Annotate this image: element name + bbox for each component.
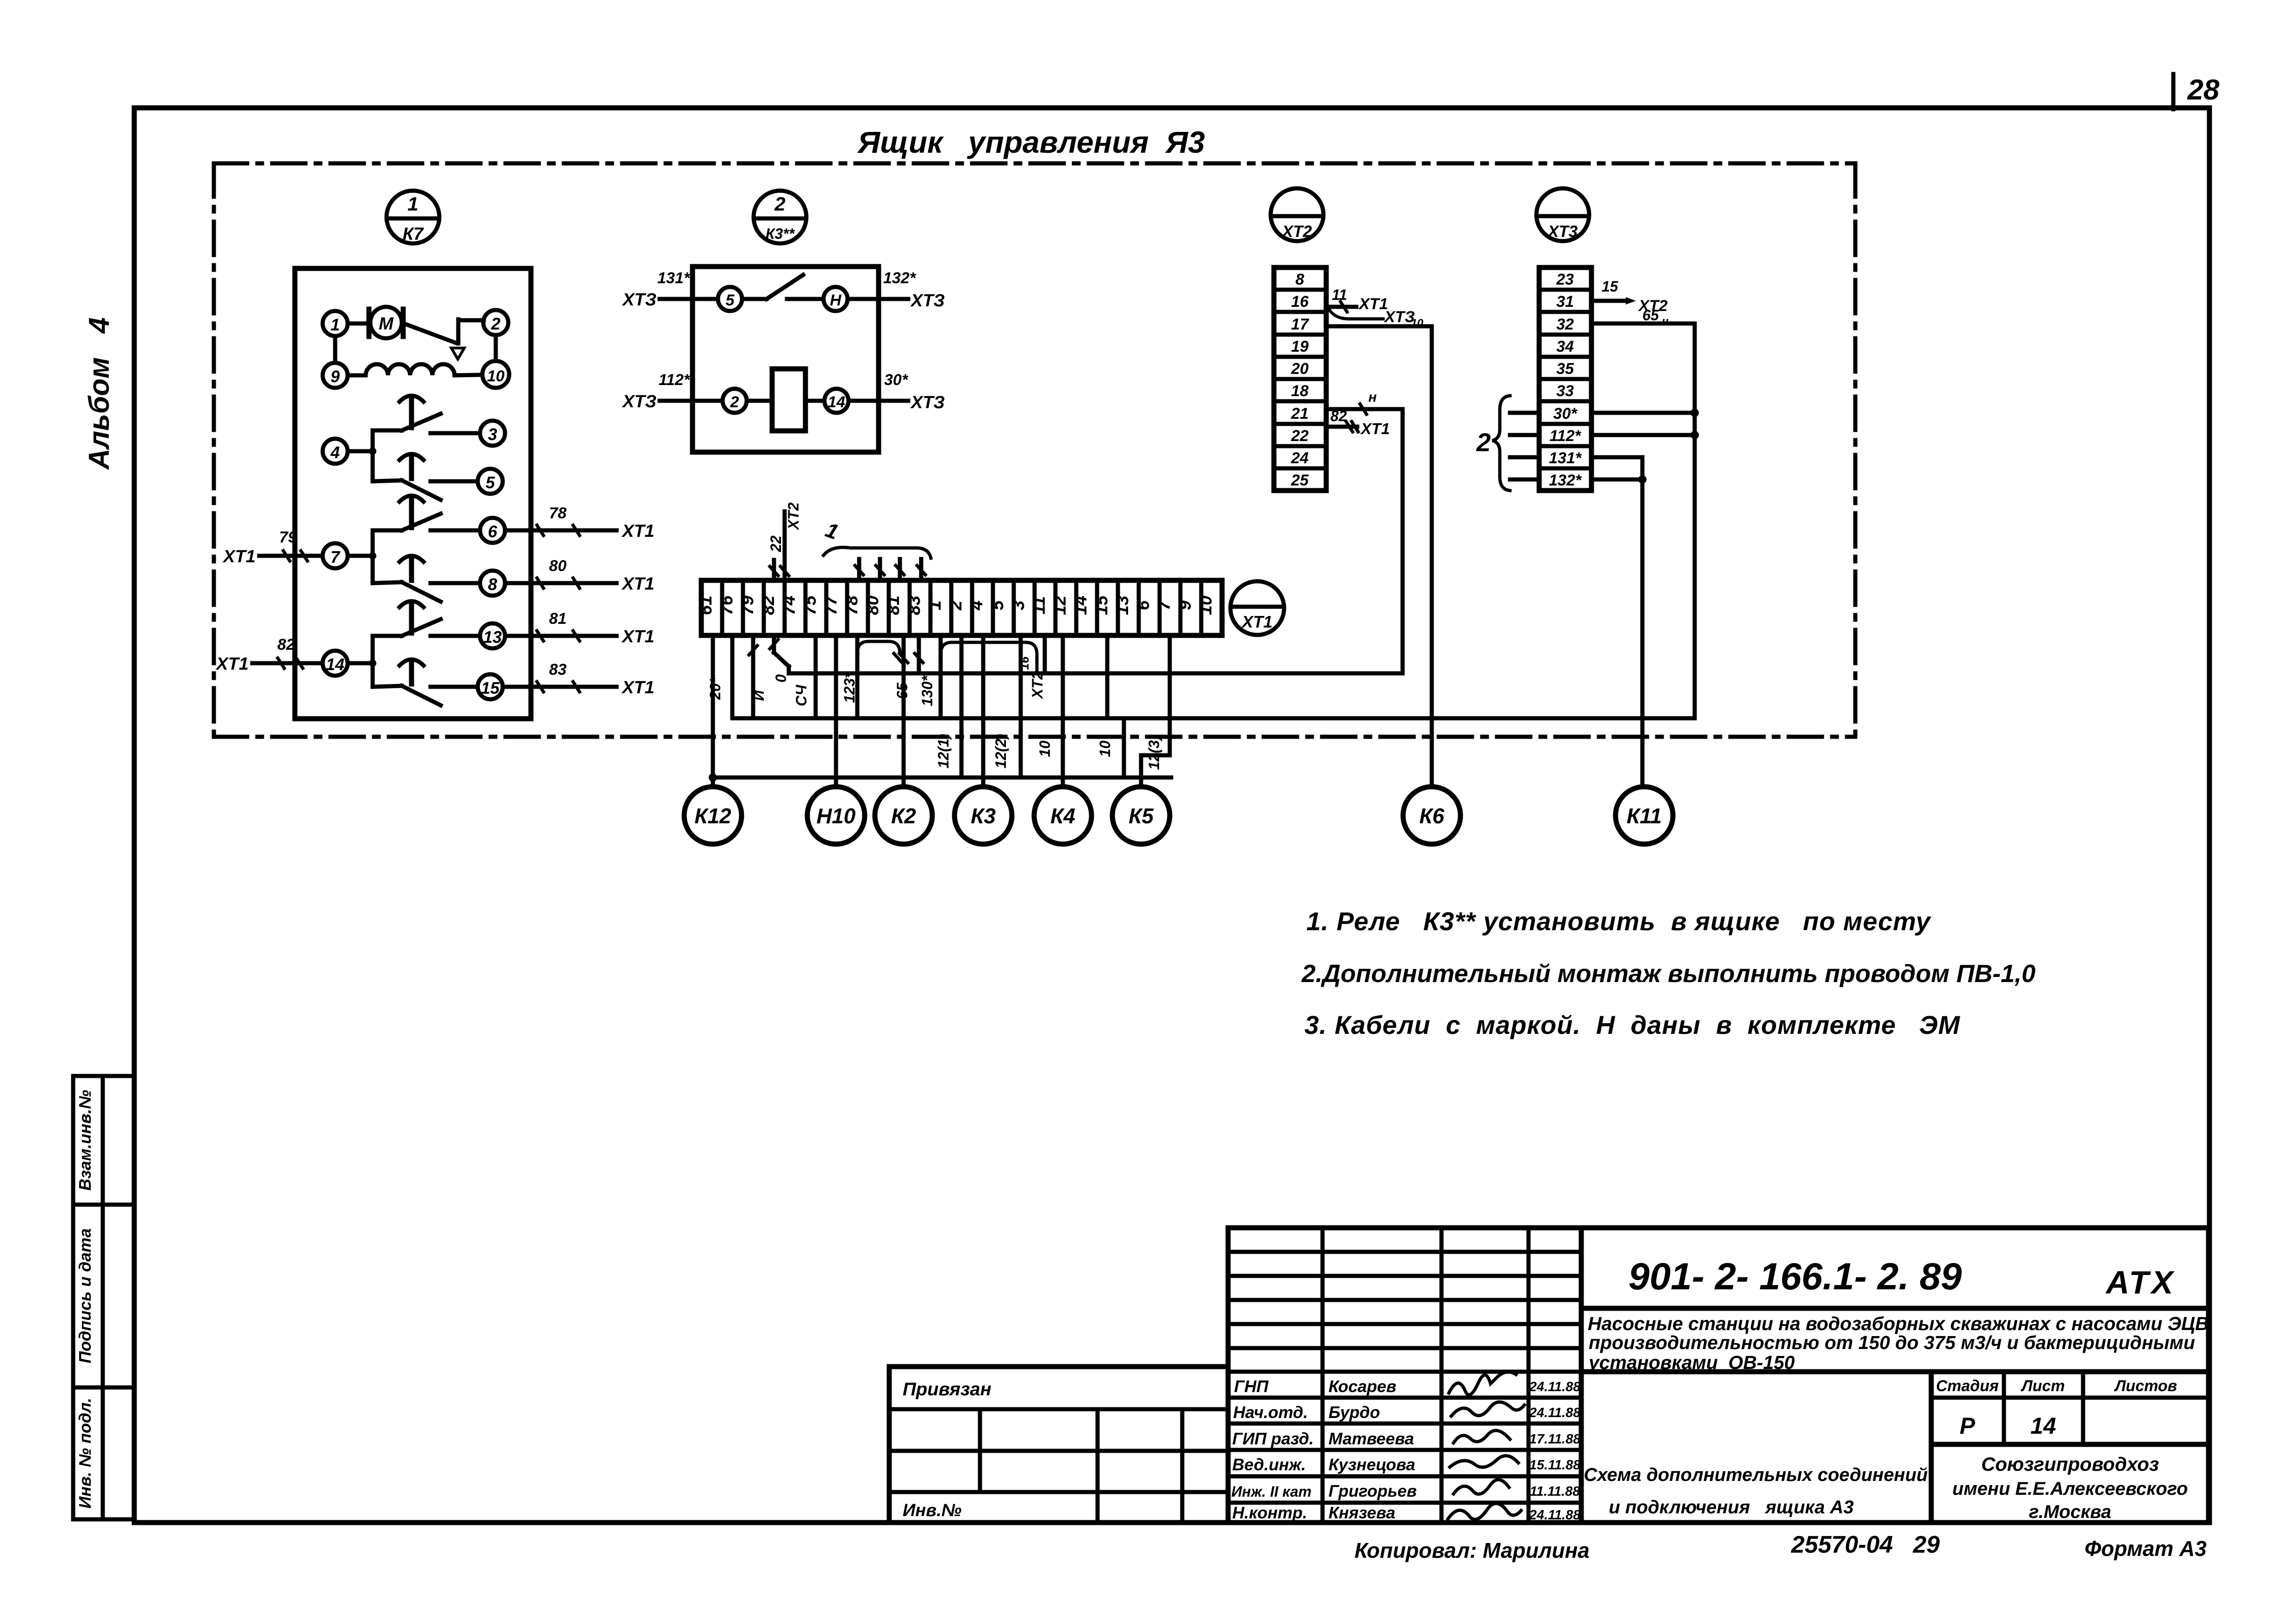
- svg-text:82: 82: [277, 636, 295, 653]
- svg-text:производительностью от 150 до: производительностью от 150 до 375 м3/ч и…: [1589, 1332, 2195, 1353]
- svg-text:ХТЗ: ХТЗ: [910, 291, 945, 311]
- svg-text:112*: 112*: [659, 371, 691, 389]
- svg-text:9: 9: [1175, 600, 1195, 610]
- svg-text:2: 2: [774, 193, 785, 215]
- svg-text:31: 31: [1556, 293, 1574, 311]
- svg-text:ХТЗ: ХТЗ: [622, 290, 656, 310]
- svg-text:131*: 131*: [1549, 449, 1582, 467]
- svg-text:Н: Н: [830, 292, 842, 309]
- svg-text:1. Реле К3** установить в я: 1. Реле К3** установить в ящике по месту: [1306, 907, 1932, 936]
- svg-text:81: 81: [884, 596, 903, 615]
- svg-text:74: 74: [780, 596, 799, 615]
- svg-text:Инв. № подл.: Инв. № подл.: [75, 1398, 94, 1508]
- svg-text:К3**: К3**: [766, 225, 795, 242]
- svg-text:16: 16: [1291, 293, 1309, 311]
- svg-text:12(2): 12(2): [992, 734, 1009, 769]
- svg-text:и подключения ящика А3: и подключения ящика А3: [1609, 1497, 1853, 1517]
- svg-text:20*: 20*: [707, 677, 724, 700]
- svg-text:К6: К6: [1419, 804, 1444, 828]
- svg-text:10: 10: [487, 367, 505, 385]
- svg-text:24.11.88: 24.11.88: [1529, 1508, 1581, 1523]
- svg-text:г.Москва: г.Москва: [2029, 1502, 2111, 1522]
- svg-text:12(3): 12(3): [1146, 735, 1162, 770]
- svg-text:ХТ1: ХТ1: [1241, 612, 1273, 631]
- svg-text:11.11.88: 11.11.88: [1530, 1484, 1580, 1499]
- svg-text:Нач.отд.: Нач.отд.: [1233, 1403, 1308, 1422]
- svg-text:13: 13: [1113, 596, 1132, 615]
- svg-text:имени Е.Е.Алексеевского: имени Е.Е.Алексеевского: [1953, 1479, 2188, 1499]
- svg-text:5: 5: [486, 473, 495, 492]
- svg-text:Формат А3: Формат А3: [2084, 1536, 2207, 1561]
- svg-text:76: 76: [717, 595, 736, 615]
- svg-text:34: 34: [1556, 338, 1574, 355]
- svg-text:Инж. II кат: Инж. II кат: [1231, 1483, 1311, 1500]
- svg-text:ХТ1: ХТ1: [621, 678, 655, 697]
- svg-text:15: 15: [1602, 278, 1619, 295]
- svg-text:Вед.инж.: Вед.инж.: [1232, 1455, 1306, 1474]
- svg-text:12: 12: [1050, 596, 1070, 615]
- svg-text:15: 15: [481, 678, 500, 697]
- svg-text:4: 4: [330, 443, 340, 462]
- svg-text:ХТ1: ХТ1: [1360, 420, 1390, 438]
- svg-text:7: 7: [331, 547, 341, 566]
- svg-text:30*: 30*: [1553, 405, 1578, 423]
- svg-text:22: 22: [767, 535, 784, 553]
- svg-text:ХТЗ: ХТЗ: [910, 393, 945, 412]
- svg-text:80: 80: [863, 596, 882, 615]
- svg-text:10: 10: [1097, 740, 1113, 757]
- svg-text:ХТ1: ХТ1: [215, 654, 249, 674]
- svg-text:18: 18: [1291, 382, 1309, 400]
- svg-text:1: 1: [407, 193, 418, 215]
- svg-text:Р: Р: [1959, 1413, 1975, 1439]
- svg-text:Схема дополнительных соединени: Схема дополнительных соединений: [1584, 1465, 1928, 1485]
- svg-text:65: 65: [1642, 307, 1660, 323]
- svg-text:ХТ1: ХТ1: [222, 547, 256, 566]
- svg-text:Альбом 4: Альбом 4: [83, 317, 115, 470]
- svg-text:112*: 112*: [1549, 427, 1581, 445]
- svg-text:16: 16: [1017, 656, 1031, 670]
- svg-text:Н.контр.: Н.контр.: [1232, 1503, 1307, 1522]
- svg-text:132*: 132*: [883, 269, 917, 287]
- svg-text:32: 32: [1556, 316, 1574, 333]
- svg-text:Матвеева: Матвеева: [1329, 1429, 1414, 1448]
- svg-text:АТХ: АТХ: [2105, 1264, 2176, 1300]
- svg-text:82: 82: [759, 596, 778, 615]
- svg-text:Косарев: Косарев: [1329, 1377, 1397, 1396]
- svg-text:И: И: [750, 690, 767, 701]
- svg-text:Насосные станции на водозаборн: Насосные станции на водозаборных скважин…: [1588, 1313, 2209, 1334]
- svg-text:ХТ1: ХТ1: [1358, 295, 1388, 313]
- svg-text:ХТ1: ХТ1: [621, 627, 655, 647]
- svg-text:8: 8: [1296, 271, 1304, 288]
- svg-text:5: 5: [988, 600, 1007, 610]
- svg-text:Листов: Листов: [2114, 1377, 2177, 1395]
- svg-text:10: 10: [1036, 740, 1053, 757]
- svg-text:7: 7: [1154, 600, 1174, 610]
- svg-text:2: 2: [946, 600, 966, 610]
- svg-text:Григорьев: Григорьев: [1329, 1481, 1417, 1500]
- svg-text:80: 80: [549, 557, 567, 575]
- svg-text:14: 14: [1071, 596, 1091, 615]
- svg-text:Стадия: Стадия: [1936, 1377, 1999, 1395]
- svg-text:н: н: [1368, 390, 1377, 405]
- svg-text:75: 75: [800, 595, 820, 615]
- svg-text:123*: 123*: [841, 672, 858, 703]
- svg-text:6: 6: [1134, 600, 1153, 610]
- svg-text:9: 9: [331, 367, 340, 386]
- svg-text:Бурдо: Бурдо: [1329, 1403, 1380, 1422]
- svg-text:Инв.№: Инв.№: [903, 1501, 961, 1520]
- svg-text:24: 24: [1291, 449, 1309, 467]
- svg-text:ХТ1: ХТ1: [621, 522, 655, 541]
- svg-text:5: 5: [726, 292, 735, 309]
- svg-text:21: 21: [1291, 405, 1309, 423]
- svg-text:СЧ: СЧ: [793, 684, 810, 707]
- svg-text:23: 23: [1556, 271, 1574, 288]
- svg-text:24.11.88: 24.11.88: [1529, 1405, 1581, 1420]
- svg-text:12(1): 12(1): [935, 734, 952, 769]
- svg-text:ХТ2: ХТ2: [1281, 223, 1312, 241]
- svg-text:Н10: Н10: [817, 804, 856, 828]
- svg-text:К11: К11: [1627, 804, 1662, 828]
- svg-text:15: 15: [1092, 595, 1111, 615]
- svg-text:ГНП: ГНП: [1234, 1377, 1269, 1396]
- svg-text:3: 3: [488, 425, 497, 444]
- svg-text:Лист: Лист: [2020, 1377, 2065, 1395]
- svg-text:13: 13: [483, 628, 502, 647]
- svg-text:28: 28: [2187, 74, 2220, 106]
- svg-text:8: 8: [488, 575, 497, 594]
- svg-text:22: 22: [1291, 427, 1309, 445]
- svg-text:ХТЗ: ХТЗ: [622, 392, 656, 411]
- svg-text:131*: 131*: [657, 269, 691, 287]
- svg-text:11: 11: [1029, 596, 1049, 614]
- svg-text:61: 61: [696, 596, 716, 615]
- svg-text:Копировал: Марилина: Копировал: Марилина: [1354, 1538, 1590, 1562]
- svg-text:81: 81: [549, 610, 567, 628]
- svg-text:2: 2: [730, 393, 739, 411]
- svg-text:35: 35: [1556, 360, 1574, 378]
- svg-text:2: 2: [1476, 428, 1491, 457]
- svg-text:78: 78: [842, 595, 861, 615]
- svg-text:20: 20: [1291, 360, 1309, 378]
- svg-text:25570-04 29: 25570-04 29: [1791, 1531, 1940, 1558]
- svg-text:14: 14: [326, 655, 344, 674]
- svg-text:К3: К3: [971, 804, 996, 828]
- svg-text:К5: К5: [1129, 804, 1154, 828]
- svg-text:ХТ3: ХТ3: [1547, 223, 1578, 241]
- svg-text:Взам.инв.№: Взам.инв.№: [75, 1090, 94, 1191]
- svg-text:К4: К4: [1050, 804, 1075, 828]
- svg-text:ХТ2: ХТ2: [1029, 671, 1046, 699]
- svg-text:3. Кабели с маркой. Н даны: 3. Кабели с маркой. Н даны в комплекте Э…: [1304, 1010, 1960, 1039]
- svg-text:2.Дополнительный монтаж выполн: 2.Дополнительный монтаж выполнить провод…: [1301, 960, 2035, 988]
- svg-text:2: 2: [491, 314, 500, 333]
- svg-text:132*: 132*: [1549, 472, 1582, 489]
- svg-text:901- 2- 166.1- 2. 89: 901- 2- 166.1- 2. 89: [1628, 1256, 1962, 1298]
- svg-text:6: 6: [488, 522, 498, 541]
- svg-text:Ящик управления Я3: Ящик управления Я3: [857, 125, 1205, 159]
- svg-text:30*: 30*: [884, 371, 909, 389]
- svg-text:0: 0: [773, 674, 789, 683]
- svg-text:17.11.88: 17.11.88: [1529, 1432, 1581, 1447]
- svg-text:1: 1: [925, 600, 945, 610]
- svg-text:33: 33: [1556, 382, 1574, 400]
- svg-text:17: 17: [1291, 316, 1310, 333]
- svg-text:н: н: [1662, 315, 1669, 328]
- svg-text:65: 65: [894, 682, 911, 699]
- svg-text:Привязан: Привязан: [903, 1379, 992, 1399]
- svg-text:77: 77: [821, 595, 841, 615]
- svg-text:11: 11: [1332, 286, 1347, 303]
- svg-text:79: 79: [279, 529, 297, 546]
- svg-text:4: 4: [967, 600, 986, 610]
- svg-text:К7: К7: [403, 224, 424, 244]
- svg-text:83: 83: [905, 596, 924, 615]
- svg-text:15.11.88: 15.11.88: [1529, 1458, 1581, 1473]
- svg-text:78: 78: [549, 504, 567, 522]
- svg-text:ГИП разд.: ГИП разд.: [1232, 1429, 1314, 1448]
- svg-text:Союзгипроводхоз: Союзгипроводхоз: [1981, 1453, 2159, 1475]
- svg-text:24.11.88: 24.11.88: [1529, 1380, 1581, 1394]
- svg-text:79: 79: [738, 596, 757, 615]
- svg-text:3: 3: [1009, 600, 1028, 610]
- svg-text:25: 25: [1291, 472, 1309, 489]
- svg-text:ХТ1: ХТ1: [621, 574, 655, 594]
- svg-text:ХТЗ: ХТЗ: [1384, 308, 1415, 326]
- svg-text:14: 14: [828, 393, 845, 411]
- svg-text:Подпись и дата: Подпись и дата: [75, 1228, 94, 1363]
- svg-text:Князева: Князева: [1329, 1503, 1395, 1522]
- svg-text:ХТ2: ХТ2: [785, 502, 802, 530]
- svg-text:10: 10: [1196, 596, 1216, 615]
- svg-text:М: М: [379, 314, 394, 334]
- svg-text:130*: 130*: [919, 675, 936, 706]
- svg-text:К12: К12: [694, 804, 731, 828]
- svg-text:К2: К2: [891, 804, 916, 828]
- svg-text:1: 1: [331, 315, 340, 334]
- svg-text:14: 14: [2030, 1413, 2056, 1439]
- svg-text:83: 83: [549, 661, 567, 678]
- svg-text:19: 19: [1291, 338, 1309, 355]
- svg-text:Кузнецова: Кузнецова: [1329, 1455, 1415, 1474]
